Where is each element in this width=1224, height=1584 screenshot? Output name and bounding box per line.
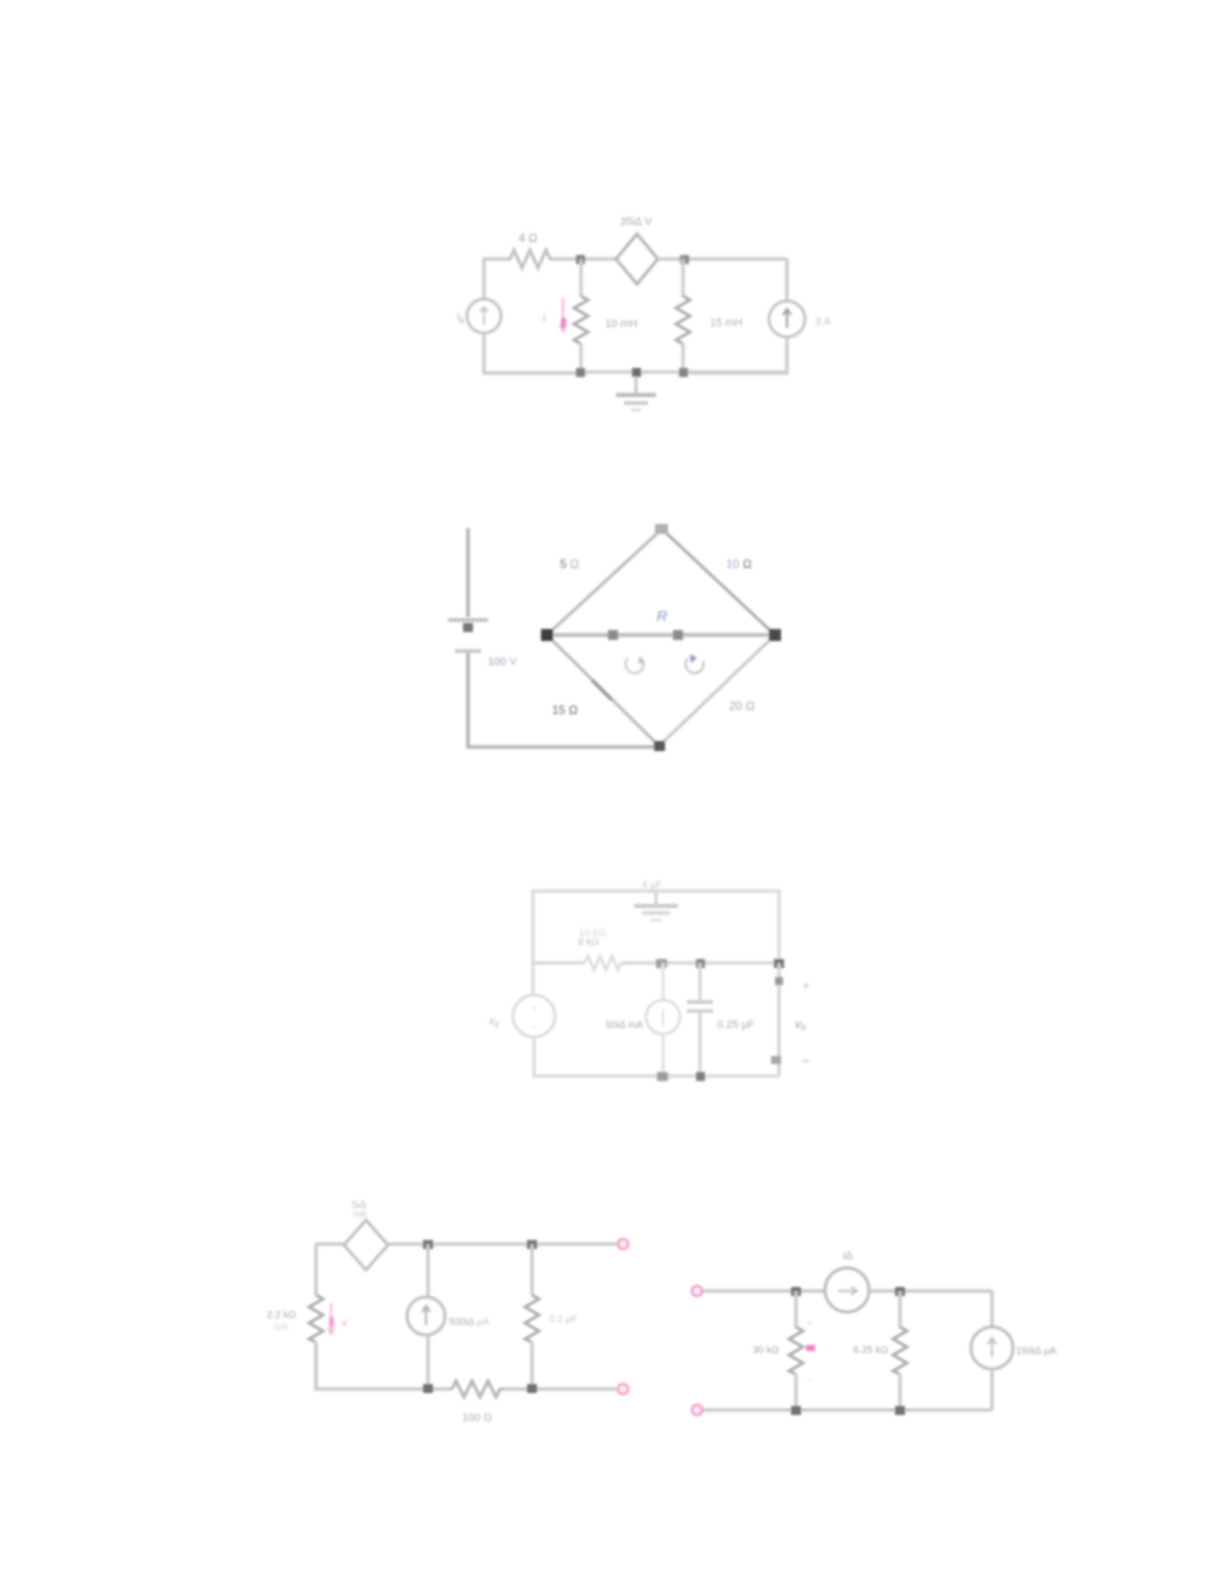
- diamond edge lower-right 20 ohm: [659, 635, 775, 746]
- node bottom branch2: [696, 1072, 705, 1081]
- resistor R4 branch1: [794, 1291, 797, 1328]
- wire branch 2 upper: [681, 259, 684, 297]
- tick lower right rail: [771, 1056, 781, 1064]
- wire branch 1 upper: [579, 259, 582, 297]
- terminal a pink: [618, 1239, 628, 1249]
- resistor R7 branch2: [530, 1244, 533, 1295]
- voltage source Vg left rail: [531, 963, 534, 995]
- current source I2: [769, 301, 805, 337]
- node top branch2: [527, 1240, 537, 1249]
- node c: [680, 255, 689, 264]
- node right vertex: [769, 629, 781, 641]
- node bottom branch1: [791, 1406, 801, 1415]
- mesh arrow left: [626, 658, 644, 673]
- svg-text:10 Ω: 10 Ω: [726, 557, 752, 571]
- resistor RL2 branch2: [676, 296, 690, 344]
- svg-text:50iΔ mA: 50iΔ mA: [606, 1020, 644, 1031]
- current source I4 inline top: [825, 1268, 869, 1312]
- terminal b pink: [618, 1384, 628, 1394]
- svg-text:vo: vo: [795, 1017, 806, 1032]
- capacitor C1 branch: [698, 963, 701, 1000]
- wire branch 2 lower: [681, 344, 684, 372]
- svg-text:30 kΩ: 30 kΩ: [753, 1345, 780, 1356]
- svg-text:+: +: [531, 1003, 537, 1014]
- svg-text:10 mH: 10 mH: [605, 318, 637, 330]
- wire R1 to node b: [554, 257, 616, 260]
- diamond edge lower-left 15 ohm: [547, 635, 659, 746]
- svg-text:4 μF: 4 μF: [642, 880, 662, 891]
- battery V1 short plate: [455, 649, 481, 652]
- middle wire detector branch: [547, 633, 775, 637]
- wire left rail upper: [466, 528, 470, 617]
- wire right rail upper: [785, 259, 788, 302]
- dependent source I5 right rail: [971, 1327, 1013, 1369]
- node left vertex: [541, 629, 553, 641]
- mesh arrow right: [686, 658, 704, 673]
- wire left rail lower: [316, 1342, 452, 1389]
- svg-text:6.25 kΩ: 6.25 kΩ: [853, 1345, 888, 1356]
- wire bottom: [580, 370, 787, 373]
- wire diamond to node c: [658, 257, 787, 260]
- svg-text:iΔ: iΔ: [843, 1250, 853, 1262]
- node bottom branch2: [527, 1384, 537, 1393]
- resistor R3 bottom: [452, 1381, 504, 1397]
- svg-text:ig: ig: [457, 311, 464, 324]
- node b: [576, 255, 585, 264]
- wire left rail lower: [468, 653, 662, 747]
- wire bottom: [703, 1408, 992, 1412]
- node middle-right: [673, 630, 683, 640]
- svg-text:−: −: [530, 1020, 537, 1034]
- wire left rail upper: [314, 1244, 318, 1295]
- current source I3 branch1: [426, 1244, 429, 1297]
- svg-text:0.25 μF: 0.25 μF: [717, 1019, 755, 1031]
- svg-text:−: −: [802, 1053, 811, 1070]
- svg-text:35iΔ V: 35iΔ V: [620, 216, 652, 228]
- node top branch1: [791, 1287, 801, 1296]
- svg-text:mA: mA: [353, 1209, 367, 1219]
- dependent source U2 branch: [661, 963, 664, 1000]
- wire top-left corner to diamond: [316, 1242, 344, 1246]
- terminal c pink: [692, 1286, 702, 1296]
- wire diamond to terminal a: [388, 1242, 616, 1246]
- wire branch 1 lower: [579, 344, 582, 372]
- ground symbol: [635, 376, 638, 393]
- wire top-left segment node a to R1: [484, 257, 506, 260]
- wire right rail: [777, 963, 780, 1076]
- svg-text:3 A: 3 A: [815, 316, 832, 328]
- battery V1 plus mark: [463, 623, 473, 632]
- node e bottom branch2: [679, 368, 688, 377]
- node inner branch1: [656, 959, 667, 968]
- resistor R2 inline inner wire: [584, 956, 621, 970]
- tick upper right rail: [775, 977, 783, 985]
- current source I1: [467, 299, 501, 333]
- svg-text:i: i: [543, 310, 546, 325]
- wire outer rectangle top: [533, 891, 779, 963]
- wire top left segment: [703, 1289, 825, 1293]
- node inner right corner: [774, 959, 784, 968]
- node middle-left: [608, 630, 618, 640]
- dependent source U3 diamond: [344, 1220, 388, 1270]
- wire right rail lower: [990, 1369, 994, 1410]
- wire right rail upper: [990, 1291, 994, 1327]
- svg-text:150iΔ μA: 150iΔ μA: [1016, 1346, 1057, 1357]
- resistor R1 4 ohm: [506, 250, 554, 268]
- svg-text:15 mH: 15 mH: [710, 317, 742, 329]
- node ground tap: [632, 368, 641, 377]
- svg-text:500iΔ μA: 500iΔ μA: [449, 1317, 490, 1328]
- terminal d pink: [692, 1405, 702, 1415]
- svg-text:mA: mA: [275, 1322, 289, 1332]
- wire left rail lower: [484, 333, 582, 373]
- svg-text:5 Ω: 5 Ω: [560, 557, 579, 571]
- label pink v-delta arrow: [328, 1303, 334, 1334]
- node bottom branch1: [423, 1384, 433, 1393]
- wire right rail lower: [690, 337, 787, 373]
- node top branch1: [423, 1240, 433, 1249]
- wire left rail lower: [534, 1037, 779, 1076]
- svg-text:15 Ω: 15 Ω: [552, 703, 578, 717]
- svg-text:−: −: [807, 1374, 812, 1384]
- diamond edge upper-left 5 ohm: [547, 529, 662, 635]
- node inner branch2: [696, 959, 705, 968]
- resistor RL1 branch1: [574, 296, 588, 344]
- wire bottom to terminal b: [504, 1387, 616, 1391]
- svg-text:v: v: [342, 1317, 349, 1329]
- svg-text:vg: vg: [489, 1015, 500, 1028]
- dependent source U1 diamond: [616, 234, 658, 284]
- wire dash lower-left edge: [592, 680, 612, 700]
- node bottom branch1: [657, 1072, 668, 1081]
- battery V1 long plate: [448, 618, 488, 622]
- diamond top vertex: [655, 524, 668, 534]
- svg-text:+: +: [807, 1318, 812, 1328]
- resistor R5 branch2: [898, 1291, 901, 1328]
- svg-text:100 Ω: 100 Ω: [462, 1412, 492, 1424]
- node bottom branch2: [895, 1406, 905, 1415]
- node bottom vertex: [654, 741, 665, 751]
- wire left rail upper: [482, 257, 485, 300]
- svg-text:100 V: 100 V: [488, 656, 517, 668]
- ground on top wire: [655, 892, 658, 905]
- inner wire right segment: [621, 961, 779, 964]
- diamond edge upper-right 10 ohm: [662, 529, 775, 635]
- node top branch2: [895, 1287, 905, 1296]
- wire top right segment: [869, 1289, 992, 1293]
- node d bottom branch1: [576, 368, 585, 377]
- resistor R6 left rail: [309, 1295, 323, 1342]
- svg-text:8 kΩ: 8 kΩ: [578, 937, 599, 948]
- svg-text:20 Ω: 20 Ω: [729, 699, 755, 713]
- svg-text:0.2 μF: 0.2 μF: [549, 1314, 578, 1325]
- svg-text:+: +: [802, 978, 810, 993]
- svg-text:4 Ω: 4 Ω: [519, 231, 538, 245]
- svg-text:2.2 kΩ: 2.2 kΩ: [267, 1310, 297, 1321]
- svg-text:R: R: [657, 608, 668, 625]
- inner wire left segment: [533, 961, 584, 964]
